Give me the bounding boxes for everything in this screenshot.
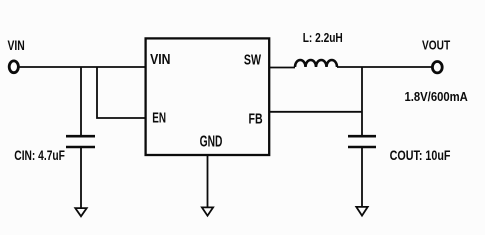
wire COUT to ground — [361, 148, 363, 207]
svg-text:EN: EN — [152, 108, 166, 126]
svg-text:CIN: 4.7uF: CIN: 4.7uF — [14, 147, 65, 163]
wire U1 pin SW to inductor — [270, 67, 296, 69]
wire inductor to VOUT terminal — [337, 66, 432, 68]
node VIN terminal — [9, 61, 18, 73]
inductor L1 — [295, 60, 337, 67]
wire junction drop to COUT — [361, 67, 363, 135]
svg-text:VOUT: VOUT — [422, 38, 450, 52]
svg-text:SW: SW — [244, 51, 262, 68]
svg-text:1.8V/600mA: 1.8V/600mA — [405, 89, 468, 104]
svg-text:VIN: VIN — [8, 38, 25, 54]
wire U1 GND pin to ground — [207, 155, 209, 208]
op-amp U1 (regulator IC body) — [146, 38, 270, 155]
svg-text:FB: FB — [249, 110, 263, 127]
ground (below CIN) — [75, 208, 86, 216]
wire junction drop to EN — [97, 67, 145, 118]
svg-text:GND: GND — [200, 132, 223, 150]
node VOUT terminal — [432, 61, 442, 72]
ground (below COUT) — [356, 207, 367, 216]
svg-text:COUT: 10uF: COUT: 10uF — [390, 148, 451, 164]
svg-text:L: 2.2uH: L: 2.2uH — [303, 31, 343, 45]
svg-text:VIN: VIN — [150, 51, 170, 67]
capacitor COUT — [348, 136, 376, 147]
capacitor CIN — [66, 136, 95, 147]
wire CIN to ground — [80, 148, 82, 208]
wire junction drop to CIN — [80, 67, 82, 135]
wire VIN terminal to U1 pin VIN — [19, 66, 145, 68]
wire U1 pin FB feedback — [270, 111, 363, 113]
ground (below U1 GND) — [202, 207, 213, 215]
